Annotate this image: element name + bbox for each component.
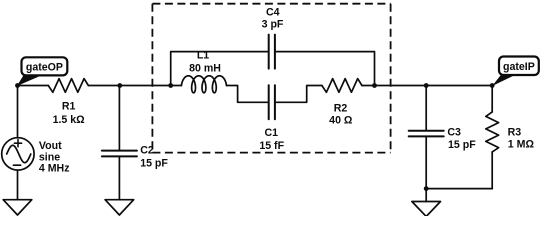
node box-right R2/C4 junction	[372, 83, 377, 88]
svg-text:1 MΩ: 1 MΩ	[508, 138, 535, 150]
svg-text:1.5 kΩ: 1.5 kΩ	[53, 114, 86, 126]
source plus sign	[14, 140, 21, 147]
svg-text:40 Ω: 40 Ω	[329, 115, 353, 127]
wire R2 to right node under gateIP	[362, 85, 492, 87]
wire C4 branch left riser	[171, 52, 269, 86]
wire main left: source node to R1	[18, 85, 49, 87]
ground under source	[3, 200, 32, 215]
node box-left L1/C4 junction	[168, 83, 173, 88]
resistor R1	[48, 79, 88, 93]
dashed subcircuit box	[152, 4, 390, 153]
svg-text:R3: R3	[508, 126, 522, 138]
wire R3 top lead	[491, 86, 493, 112]
svg-text:gateOP: gateOP	[26, 61, 63, 73]
capacitor C4 plates	[268, 35, 270, 69]
svg-text:C4: C4	[266, 6, 280, 18]
svg-text:15 pF: 15 pF	[448, 139, 476, 151]
wire R1 to L1 (through C2 junction and box edge)	[89, 85, 182, 87]
resistor R2	[322, 79, 362, 93]
source sine wave	[7, 145, 31, 162]
ground under C2	[105, 200, 134, 215]
source minus sign	[13, 164, 20, 166]
wire L1 out to step-down	[227, 86, 269, 103]
svg-text:R2: R2	[334, 102, 348, 114]
inductor L1	[181, 76, 226, 93]
capacitor C1 plates	[268, 85, 270, 119]
capacitor C2 plates	[102, 150, 137, 152]
node R3/gateIP junction	[490, 83, 495, 88]
svg-text:15 pF: 15 pF	[140, 157, 168, 169]
gateOP flag tail	[17, 75, 43, 87]
gateIP flag bubble	[499, 57, 539, 76]
node C3 junction	[424, 83, 429, 88]
svg-text:C3: C3	[447, 127, 461, 139]
svg-text:C2: C2	[140, 144, 154, 156]
subcircuit dashed box bottom edge	[152, 152, 390, 154]
wire ground stub right	[425, 189, 427, 202]
svg-text:C1: C1	[265, 127, 279, 139]
subcircuit dashed box left edge	[151, 4, 153, 153]
svg-text:80 mH: 80 mH	[189, 63, 221, 75]
wire C3 bottom lead	[425, 136, 427, 188]
source V1 circle	[2, 138, 34, 170]
svg-text:gateIP: gateIP	[503, 61, 535, 73]
gateOP flag bubble	[22, 57, 68, 75]
wire source bottom lead	[17, 170, 19, 200]
ground right	[412, 202, 441, 217]
svg-text:3 pF: 3 pF	[262, 19, 284, 31]
wire bottom joining C3 and R3	[426, 188, 492, 190]
svg-text:R1: R1	[62, 101, 76, 113]
node bottom C3/ground junction	[424, 186, 429, 191]
wire C2 top lead	[118, 86, 120, 151]
node source/gateOP junction	[15, 83, 20, 88]
subcircuit dashed box top edge	[152, 3, 390, 5]
wire C2 bottom lead	[118, 156, 120, 199]
svg-text:15 fF: 15 fF	[259, 140, 284, 152]
subcircuit dashed box right edge	[390, 4, 392, 153]
gateIP flag tail	[492, 75, 515, 86]
wire C3 top lead	[425, 86, 427, 131]
resistor R3	[486, 112, 499, 152]
wire source top lead	[17, 86, 19, 138]
wire R3 bottom lead	[491, 152, 493, 189]
wire C1 right to step-up and to R2	[275, 86, 322, 103]
svg-text:4 MHz: 4 MHz	[39, 162, 70, 174]
node C2 junction	[117, 83, 122, 88]
capacitor C3 plates	[409, 130, 444, 132]
wire C4 branch right riser	[275, 52, 375, 86]
svg-text:L1: L1	[197, 50, 209, 62]
